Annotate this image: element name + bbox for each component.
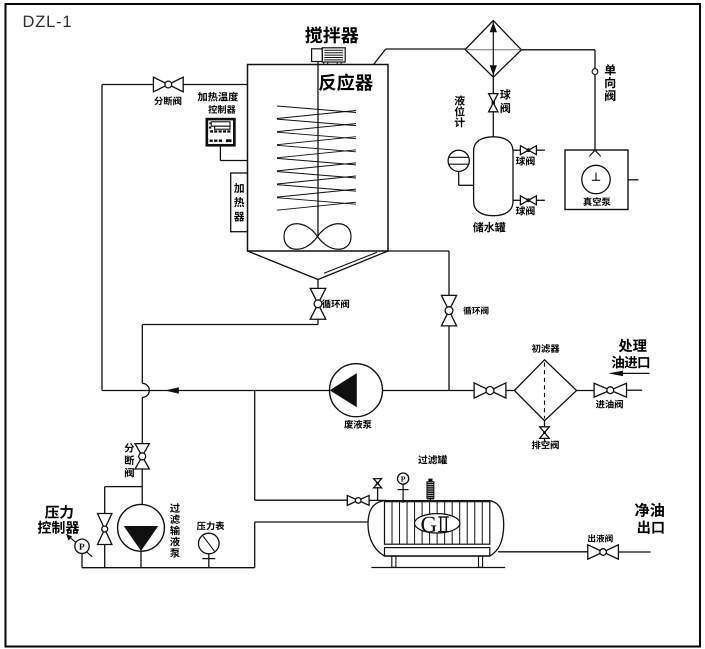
pressure gauge 压力表 [199,533,220,554]
wire tank upper valve stubs [513,149,545,151]
wire filter tank outlet [498,551,588,553]
check valve 单向阀 circle [592,69,598,75]
level gauge 液位计 [448,150,469,171]
wire pump to bottom line [140,551,142,568]
label 搅拌器 [305,26,358,43]
heating coil inside reactor [277,106,356,210]
wire drain valve stub [544,438,546,441]
label 分断阀 [154,96,181,105]
filter element (striped) [385,502,490,545]
strainer internal dashed line [544,363,546,419]
label 初滤器 [532,344,560,353]
wire reactor vent to condenser [374,49,466,65]
label 真空泵 [583,197,610,206]
label 储水罐 [473,222,506,232]
label 反应器 [319,73,373,91]
filter tank inlet valve [347,495,369,505]
wire inlet line [627,389,643,391]
wire circulation valve to crossover [142,319,318,383]
condenser diamond [465,21,521,78]
label 出液阀 [588,534,613,542]
drain valve 排空阀 [540,427,550,439]
agitator motor 搅拌器 [312,48,346,65]
wire reactor right to circulation valve [388,251,449,296]
wire isolation valve to left riser [102,84,153,86]
label 压力 [45,505,73,519]
label 球阀 [516,206,535,215]
label 压力表 [197,521,225,530]
label 球阀 [500,89,511,113]
wire inlet valve to tank [369,499,386,501]
flow arrow on main line [166,388,179,394]
label 控制器 [38,521,79,534]
vacuum pump box 真空泵 [565,150,628,210]
wire valve to strainer [506,390,515,392]
wire vacuum pump outlet stub [628,179,639,181]
ball valve 球阀 (under condenser) [489,94,498,112]
heater box 加热器 [231,173,248,232]
pipe hop-over arc [142,383,149,397]
nameplate ellipse G II [415,514,460,533]
label 加热器 [234,183,244,221]
agitator propeller blades [284,224,351,250]
label 过滤罐 [418,455,447,464]
wire crossover to lower isolation valve [141,397,143,443]
bypass valve [98,514,112,545]
pressure controller 压力控制器 [67,534,93,557]
wire main line right of pump [382,390,474,392]
wire bypass [105,487,143,568]
oil inlet valve 进油阀 [594,383,626,397]
label 控制器 [208,105,235,114]
label 球阀 [516,156,535,165]
wire reactor to isolation valve [183,84,247,86]
label 净油 [635,503,664,517]
reactor vessel 反应器 [248,65,389,252]
waste pump 废液泵 [330,364,383,417]
label 单向阀 [605,64,616,101]
filter feed pump 过滤输液泵 [118,504,165,551]
circulation valve 循环阀 (left) [310,288,326,319]
label 进油阀 [596,400,623,409]
strainer 初滤器 diamond [514,360,576,421]
label 循环阀 [322,299,349,308]
label 循环阀 [463,306,488,314]
wire controller to bottom line [81,554,83,568]
label 排空阀 [532,440,559,449]
wire level gauge to tank [459,171,474,185]
wire main line branch to filter tank [255,391,348,501]
wire tank lower valve stubs [513,199,545,201]
agitator shaft [317,62,319,237]
wire tank vent valve stem [377,488,379,501]
label 过滤输液泵 [170,503,180,557]
temperature controller box 加热温度控制器 [206,118,236,147]
vacuum pump inlet arrowhead [589,150,600,156]
label 分断阀 [125,443,135,477]
filter tank shell 过滤罐 [368,501,504,556]
wire main line left of pump [102,390,330,392]
wire outlet line [618,551,650,553]
pipe passing through condenser [466,49,521,51]
ball valve 球阀 (tank upper) [520,146,536,155]
wire right circulation valve to main line [448,326,450,391]
wire condenser to ball valve [492,77,494,94]
title DZL-1 [24,16,71,27]
vacuum pump impeller circle [582,165,610,193]
filter tank lower band [385,548,490,557]
wire strainer to inlet valve [577,390,595,392]
wire ball valve to water tank [492,112,494,137]
tank relief fitting (hatched) [427,479,434,502]
wire condenser to vacuum line [521,50,595,150]
wire cone to circulation valve [317,280,319,289]
oil outlet valve 出液阀 [588,545,619,560]
vent ball valve (tank top) [374,479,382,488]
wire gauge stem [202,554,215,568]
isolation valve 分断阀 (lower) [135,444,149,469]
wire strainer drain stem [544,421,546,427]
wire controller to reactor [220,147,247,161]
condenser internal arrow [490,21,496,78]
label 油进口 [612,356,650,369]
wire left riser [101,85,103,391]
water storage tank 储水罐 [474,137,513,216]
label 液位计 [455,95,465,127]
valve (main line before strainer) [474,383,506,398]
circulation valve 循环阀 (right) [441,295,456,326]
reactor bottom cone [248,251,389,280]
tank top pressure gauge [398,473,409,503]
label 处理 [619,339,647,353]
isolation valve 分断阀 (top-left) [153,77,183,92]
label 加热温度 [198,92,238,102]
ball valve 球阀 (tank lower) [520,196,536,205]
wire valve to filter pump [141,469,143,505]
wire bottom run [82,522,369,568]
label 出口 [638,521,664,534]
label 废液泵 [344,420,371,429]
filter tank legs and base [371,556,505,568]
inlet flow arrow [610,371,650,376]
